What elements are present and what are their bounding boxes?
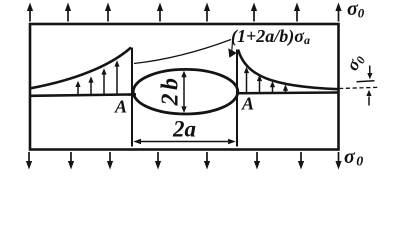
top tension arrow 7 [294,3,300,22]
top tension arrow 3 [105,3,111,22]
sigma0 dimension up arrow [366,90,371,106]
bottom tension arrow 6 [254,152,260,170]
svg-text:(1+2a/b)σa: (1+2a/b)σa [231,26,310,47]
plate rectangle [30,24,339,150]
bottom tension arrow 1 [26,152,32,170]
right stress arrow 3 [270,81,275,93]
left stress arrow 4 [114,60,119,94]
right stress arrow 2 [257,75,262,93]
left section vertical through A (and 2a extension line) [131,48,133,147]
right stress arrow 1 [244,67,249,93]
left stress distribution curve [31,48,131,89]
leader arrowhead at right peak [228,48,237,58]
bottom tension arrow 5 [204,152,210,170]
svg-text:2b: 2b [158,75,184,107]
2b dimension arrow (vertical, double-headed) [181,71,186,113]
right section vertical through A (and 2a extension line) [236,50,238,147]
2a dimension line [133,139,236,145]
left stress arrow 2 [88,76,93,94]
top tension arrow 5 [204,3,210,22]
right stress distribution curve [238,50,339,90]
bottom tension arrow 4 [155,152,161,170]
bottom tension arrow 7 [298,152,304,170]
left stress arrow 1 [75,81,80,95]
bottom tension arrow 8 at right corner [335,152,341,170]
svg-text:A: A [241,94,254,114]
sigma0 level short line right [357,81,375,82]
leader connector [231,41,234,51]
leader line to peak stress [134,40,231,64]
svg-text:2a: 2a [172,117,196,142]
bottom tension arrow 3 [107,152,113,170]
elliptical hole [133,69,238,114]
top tension arrow 2 [65,3,71,22]
sigma0 dashed centerline extension right [339,87,379,88]
sigma0 dimension down arrow [367,66,372,80]
right baseline (major axis segment) [238,91,339,94]
top tension arrow 1 [27,3,33,22]
svg-text:A: A [114,97,127,117]
right stress arrow 4 [283,85,288,93]
left stress arrow 3 [101,68,106,94]
top tension arrow 6 [251,3,257,22]
top tension arrow 4 [157,3,163,22]
bottom tension arrow 2 [68,152,74,170]
left baseline (major axis segment) [31,94,136,95]
top tension arrow 8 at right corner [335,3,341,22]
